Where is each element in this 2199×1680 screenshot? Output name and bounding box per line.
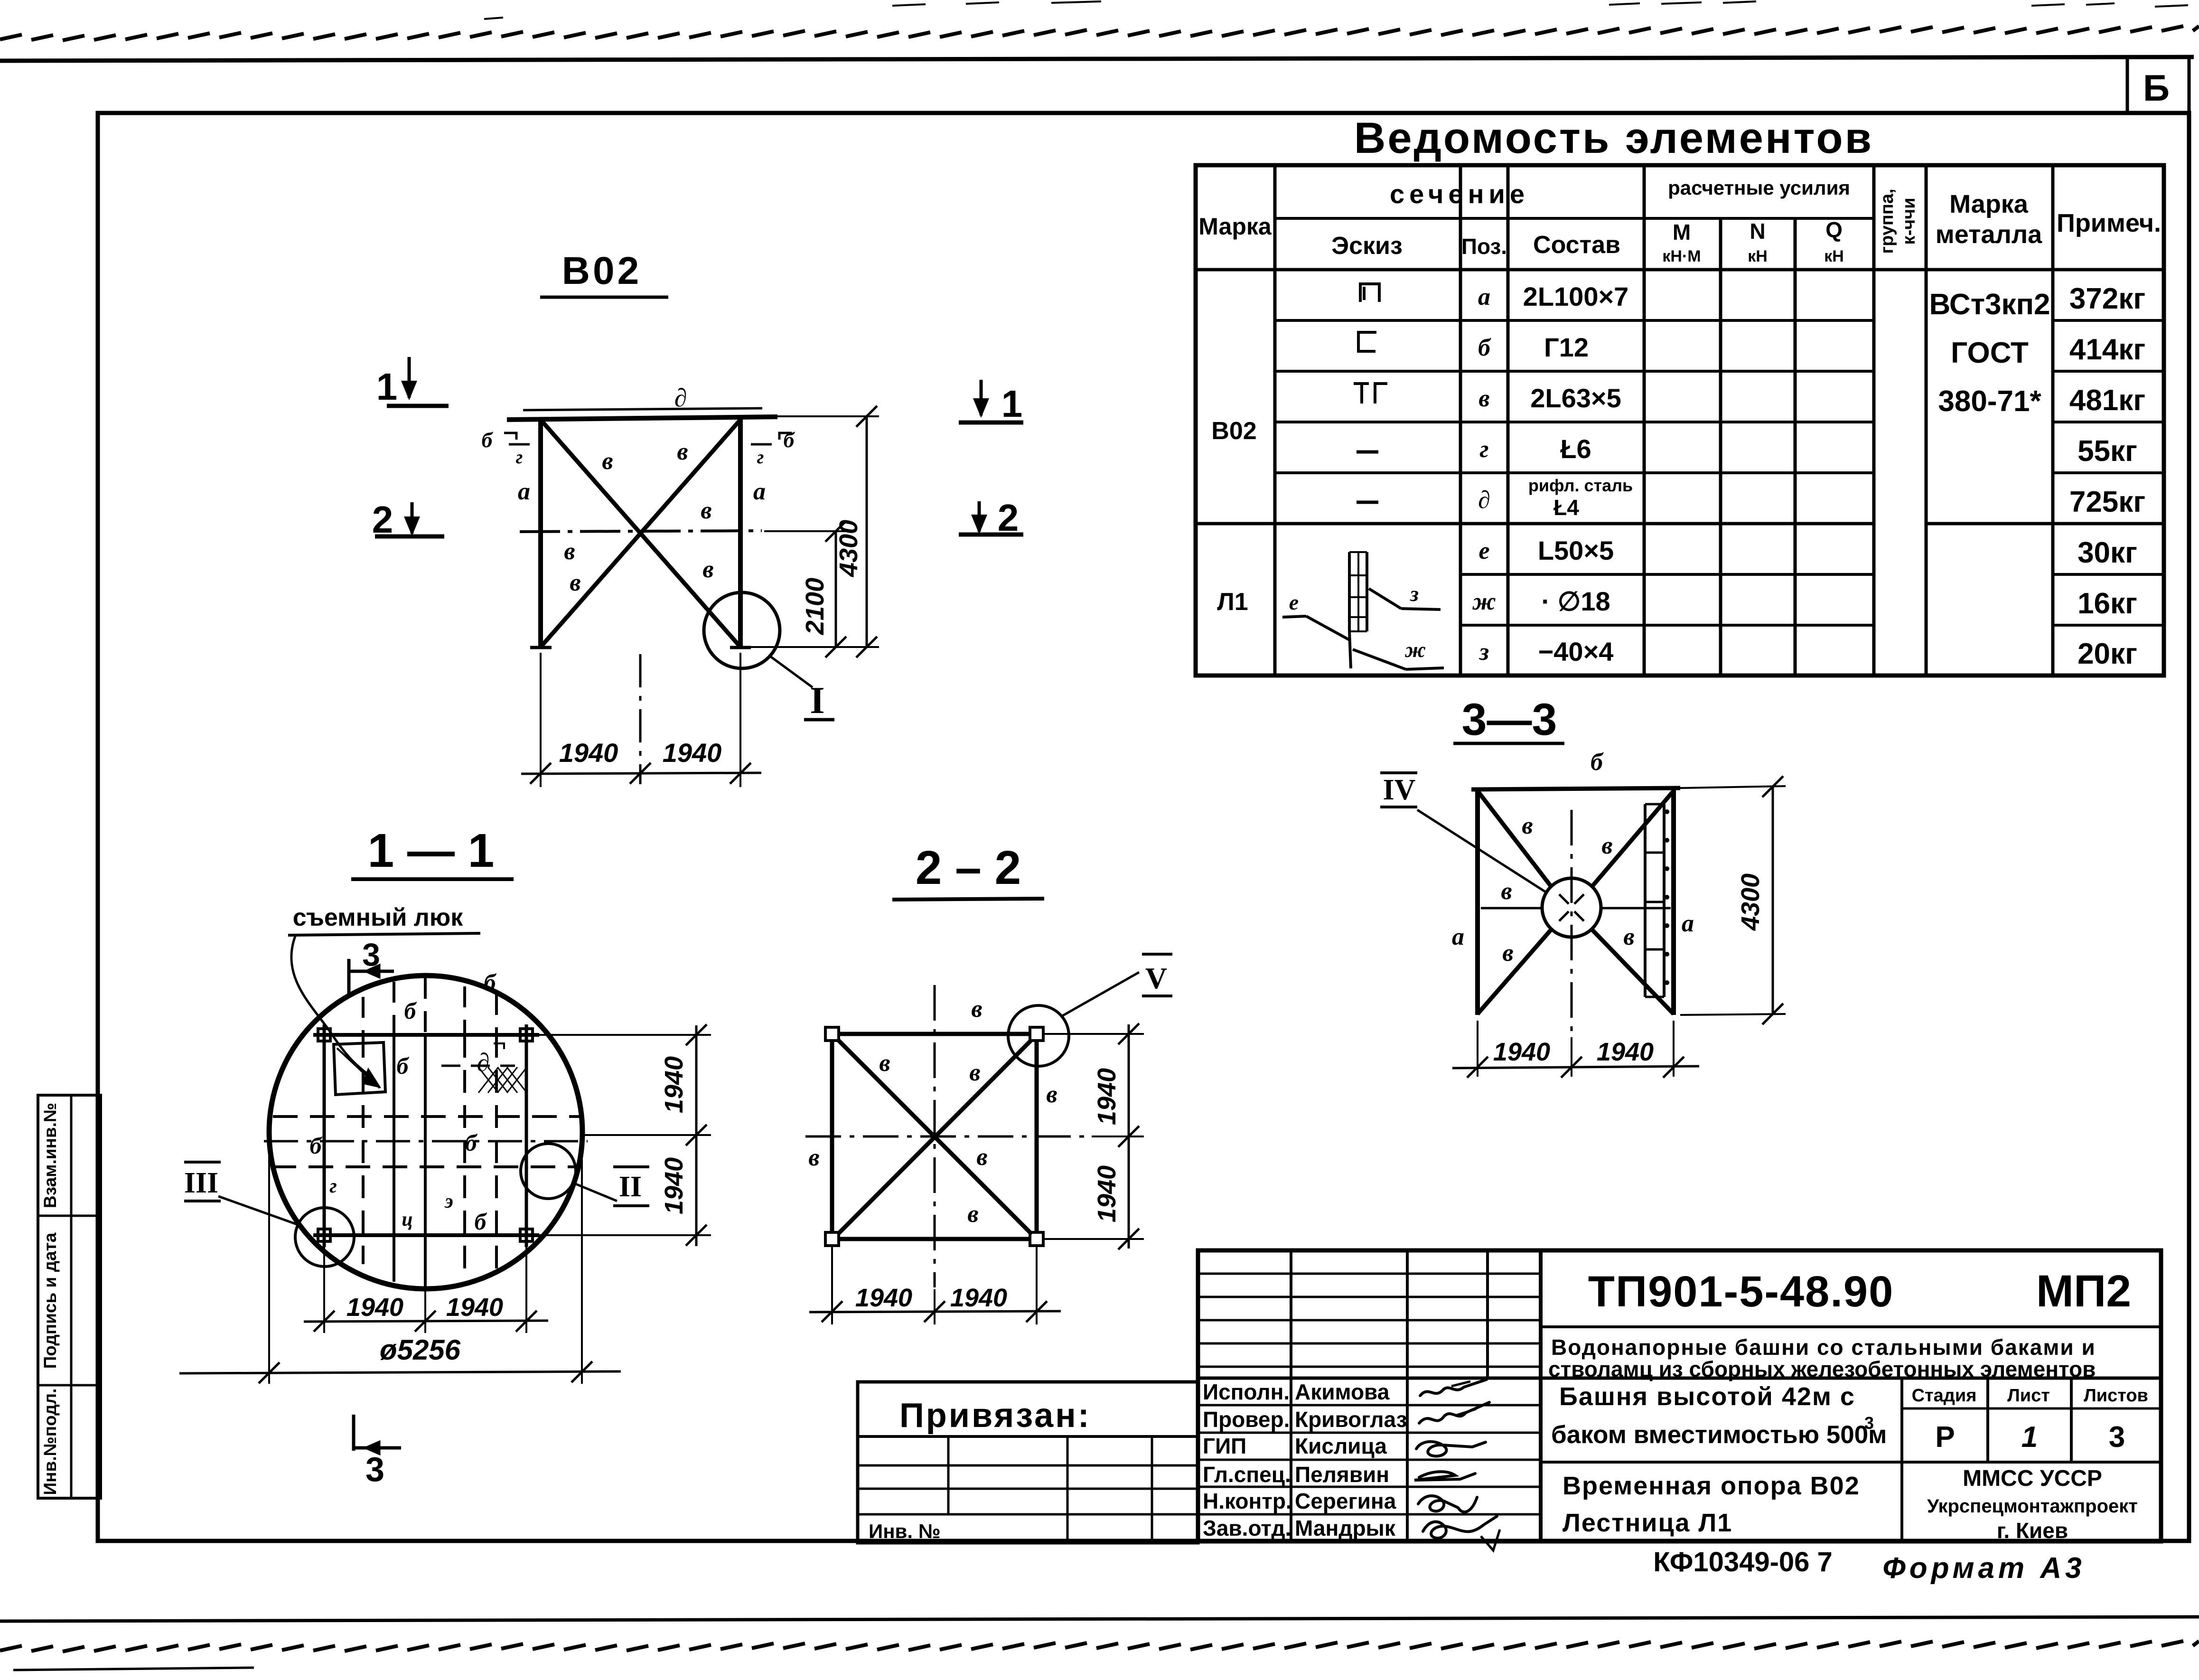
svg-text:Мандрык: Мандрык [1295,1516,1396,1540]
svg-text:1940: 1940 [346,1293,403,1322]
svg-text:Стадия: Стадия [1912,1386,1977,1406]
svg-text:Взам.инв.№: Взам.инв.№ [40,1103,60,1208]
svg-text:а: а [1682,910,1694,937]
svg-text:в: в [971,995,982,1023]
svg-text:в: в [976,1144,987,1171]
svg-text:N: N [1750,219,1765,244]
svg-text:в: в [564,538,575,565]
svg-text:б: б [404,997,417,1024]
svg-text:III: III [184,1167,218,1199]
svg-text:в: в [879,1050,890,1077]
svg-text:в: в [1501,878,1512,905]
svg-text:725кг: 725кг [2069,486,2145,518]
svg-text:расчетные усилия: расчетные усилия [1668,177,1850,199]
svg-text:б: б [310,1132,323,1159]
svg-text:в: в [1478,385,1489,412]
svg-text:баком вместимостью 500м: баком вместимостью 500м [1551,1421,1887,1449]
svg-text:Пелявин: Пелявин [1295,1462,1389,1487]
svg-text:30кг: 30кг [2077,536,2137,569]
svg-text:II: II [619,1171,642,1203]
svg-text:в: в [1522,812,1533,839]
svg-text:Зав.отд.: Зав.отд. [1203,1516,1291,1540]
svg-text:КФ10349-06 7: КФ10349-06 7 [1653,1547,1833,1577]
svg-text:20кг: 20кг [2077,638,2137,670]
svg-text:э: э [444,1191,453,1212]
svg-text:· ∅18: · ∅18 [1541,586,1610,616]
svg-text:Н.контр.: Н.контр. [1203,1489,1292,1513]
svg-text:группа,: группа, [1877,188,1897,253]
svg-text:Кривоглаз: Кривоглаз [1295,1407,1407,1432]
svg-text:ТП901-5-48.90: ТП901-5-48.90 [1588,1267,1894,1316]
svg-text:г: г [516,446,523,468]
svg-text:а: а [1452,923,1464,950]
svg-text:в: в [1623,923,1634,950]
svg-text:4300: 4300 [1736,873,1765,931]
svg-text:Л1: Л1 [1217,588,1248,616]
svg-text:Г12: Г12 [1544,332,1589,362]
svg-text:кН: кН [1748,247,1768,265]
svg-text:Кислица: Кислица [1295,1434,1387,1458]
svg-text:Башня высотой 42м с: Башня высотой 42м с [1559,1382,1855,1411]
svg-text:б: б [1591,749,1604,776]
svg-text:1940: 1940 [1597,1038,1654,1066]
svg-text:ц: ц [402,1209,412,1230]
svg-text:в: в [570,569,580,596]
svg-text:Марка: Марка [1198,213,1272,240]
svg-text:1 — 1: 1 — 1 [368,824,495,877]
svg-text:рифл. сталь: рифл. сталь [1528,476,1633,495]
svg-text:г: г [1479,436,1488,463]
svg-text:ВСт3кп2: ВСт3кп2 [1929,288,2050,321]
svg-text:Состав: Состав [1533,231,1620,259]
svg-text:б: б [484,969,497,995]
svg-text:Марка: Марка [1949,190,2029,218]
svg-text:ж: ж [1404,638,1426,662]
svg-text:з: з [1478,638,1489,666]
svg-text:V: V [1145,961,1167,995]
svg-text:Подпись и дата: Подпись и дата [40,1232,60,1369]
svg-text:в: в [702,556,713,583]
svg-text:Эскиз: Эскиз [1331,232,1403,260]
svg-text:1940: 1940 [559,738,618,768]
svg-text:Временная опора В02: Временная опора В02 [1563,1472,1860,1500]
svg-text:IV: IV [1383,774,1416,806]
svg-text:е: е [1478,537,1489,564]
svg-text:2 – 2: 2 – 2 [916,841,1021,894]
svg-text:L50×5: L50×5 [1538,535,1614,565]
svg-text:Гл.спец.: Гл.спец. [1203,1462,1291,1487]
svg-text:1940: 1940 [660,1056,688,1113]
svg-text:кН·М: кН·М [1662,247,1701,265]
svg-text:г: г [757,446,764,468]
svg-text:1940: 1940 [1093,1068,1121,1125]
svg-text:4300: 4300 [834,520,863,577]
svg-text:МП2: МП2 [2036,1266,2131,1316]
svg-text:Ł6: Ł6 [1560,434,1591,464]
svg-text:в: в [677,438,688,465]
svg-text:1940: 1940 [660,1157,688,1214]
svg-text:Р: Р [1935,1421,1955,1454]
svg-text:∂: ∂ [674,384,687,412]
svg-text:1: 1 [2021,1421,2038,1454]
svg-text:з: з [1409,582,1419,606]
svg-text:Q: Q [1825,217,1843,242]
svg-text:б: б [482,428,494,452]
svg-text:414кг: 414кг [2069,333,2145,366]
svg-text:16кг: 16кг [2077,587,2137,620]
svg-text:б: б [397,1052,410,1079]
svg-text:в: в [967,1201,978,1228]
svg-text:Провер.: Провер. [1203,1407,1290,1432]
svg-text:481кг: 481кг [2069,384,2145,417]
svg-text:б: б [465,1129,478,1156]
svg-text:1: 1 [1001,383,1023,425]
svg-text:Серегина: Серегина [1295,1489,1396,1513]
svg-text:2L63×5: 2L63×5 [1530,383,1621,413]
svg-text:е: е [1289,590,1299,614]
svg-text:3: 3 [1864,1413,1874,1433]
svg-text:ж: ж [1472,588,1496,615]
svg-text:M: M [1673,220,1691,244]
svg-text:2100: 2100 [801,578,829,635]
svg-text:3: 3 [2109,1421,2125,1454]
svg-text:∂: ∂ [477,1048,490,1077]
svg-text:В02: В02 [562,249,642,292]
svg-text:−40×4: −40×4 [1538,637,1614,666]
svg-text:Исполн.: Исполн. [1203,1380,1290,1404]
svg-text:Примеч.: Примеч. [2057,209,2161,237]
svg-text:I: I [810,680,824,722]
svg-text:Поз.: Поз. [1461,234,1507,259]
svg-text:Ведомость элементов: Ведомость элементов [1354,114,1873,162]
svg-text:380-71*: 380-71* [1938,385,2041,418]
svg-text:Формат А3: Формат А3 [1882,1552,2085,1585]
svg-text:1940: 1940 [1493,1038,1550,1066]
svg-text:372кг: 372кг [2069,282,2145,315]
svg-text:1940: 1940 [446,1293,503,1322]
svg-text:в: в [1046,1081,1057,1108]
svg-text:в: в [1601,832,1612,859]
svg-text:Листов: Листов [2084,1386,2148,1406]
svg-text:1940: 1940 [855,1284,912,1312]
svg-text:В02: В02 [1211,417,1256,445]
svg-text:Инв.№подл.: Инв.№подл. [40,1389,60,1495]
svg-text:а: а [518,478,530,505]
svg-text:б: б [784,428,795,452]
svg-text:а: а [1478,283,1490,310]
svg-text:Б: Б [2143,67,2170,109]
svg-text:Лист: Лист [2007,1386,2050,1406]
svg-text:ГОСТ: ГОСТ [1951,337,2029,369]
svg-text:б: б [1478,334,1491,361]
svg-text:Укрспецмонтажпроект: Укрспецмонтажпроект [1927,1496,2138,1517]
svg-text:3—3: 3—3 [1462,695,1557,745]
svg-text:ø5256: ø5256 [380,1334,461,1366]
svg-text:Привязан:: Привязан: [899,1397,1091,1435]
svg-text:в: в [969,1059,980,1086]
svg-text:2L100×7: 2L100×7 [1523,282,1629,311]
svg-text:г: г [329,1175,337,1197]
svg-text:ГИП: ГИП [1203,1434,1246,1458]
svg-text:а: а [753,478,766,505]
svg-text:1: 1 [376,366,398,408]
svg-text:Ł4: Ł4 [1553,495,1579,520]
svg-text:Акимова: Акимова [1295,1380,1390,1404]
svg-text:в: в [701,497,711,524]
svg-text:Лестница Л1: Лестница Л1 [1563,1509,1732,1537]
svg-text:1940: 1940 [1093,1165,1121,1222]
svg-text:∂: ∂ [1478,487,1490,514]
svg-text:стволамц из сборных железобето: стволамц из сборных железобетонных элеме… [1548,1357,2096,1381]
svg-text:к-ччи: к-ччи [1899,197,1919,244]
svg-text:кН: кН [1824,247,1844,265]
svg-text:1940: 1940 [663,738,722,768]
svg-text:в: в [1502,939,1513,967]
svg-text:б: б [475,1208,487,1235]
svg-text:съемный люк: съемный люк [293,904,464,931]
svg-text:ММСС УССР: ММСС УССР [1963,1466,2102,1491]
svg-text:сечение: сечение [1390,179,1529,209]
svg-text:в: в [602,448,613,475]
svg-text:55кг: 55кг [2077,435,2137,468]
svg-text:в: в [808,1144,819,1171]
svg-text:металла: металла [1936,220,2042,249]
svg-text:Водонапорные башни со стальным: Водонапорные башни со стальными баками и [1551,1335,2096,1360]
svg-text:г. Киев: г. Киев [1997,1518,2068,1543]
svg-text:1940: 1940 [950,1284,1007,1312]
svg-text:Инв. №: Инв. № [869,1520,941,1542]
svg-text:3: 3 [365,1451,384,1489]
